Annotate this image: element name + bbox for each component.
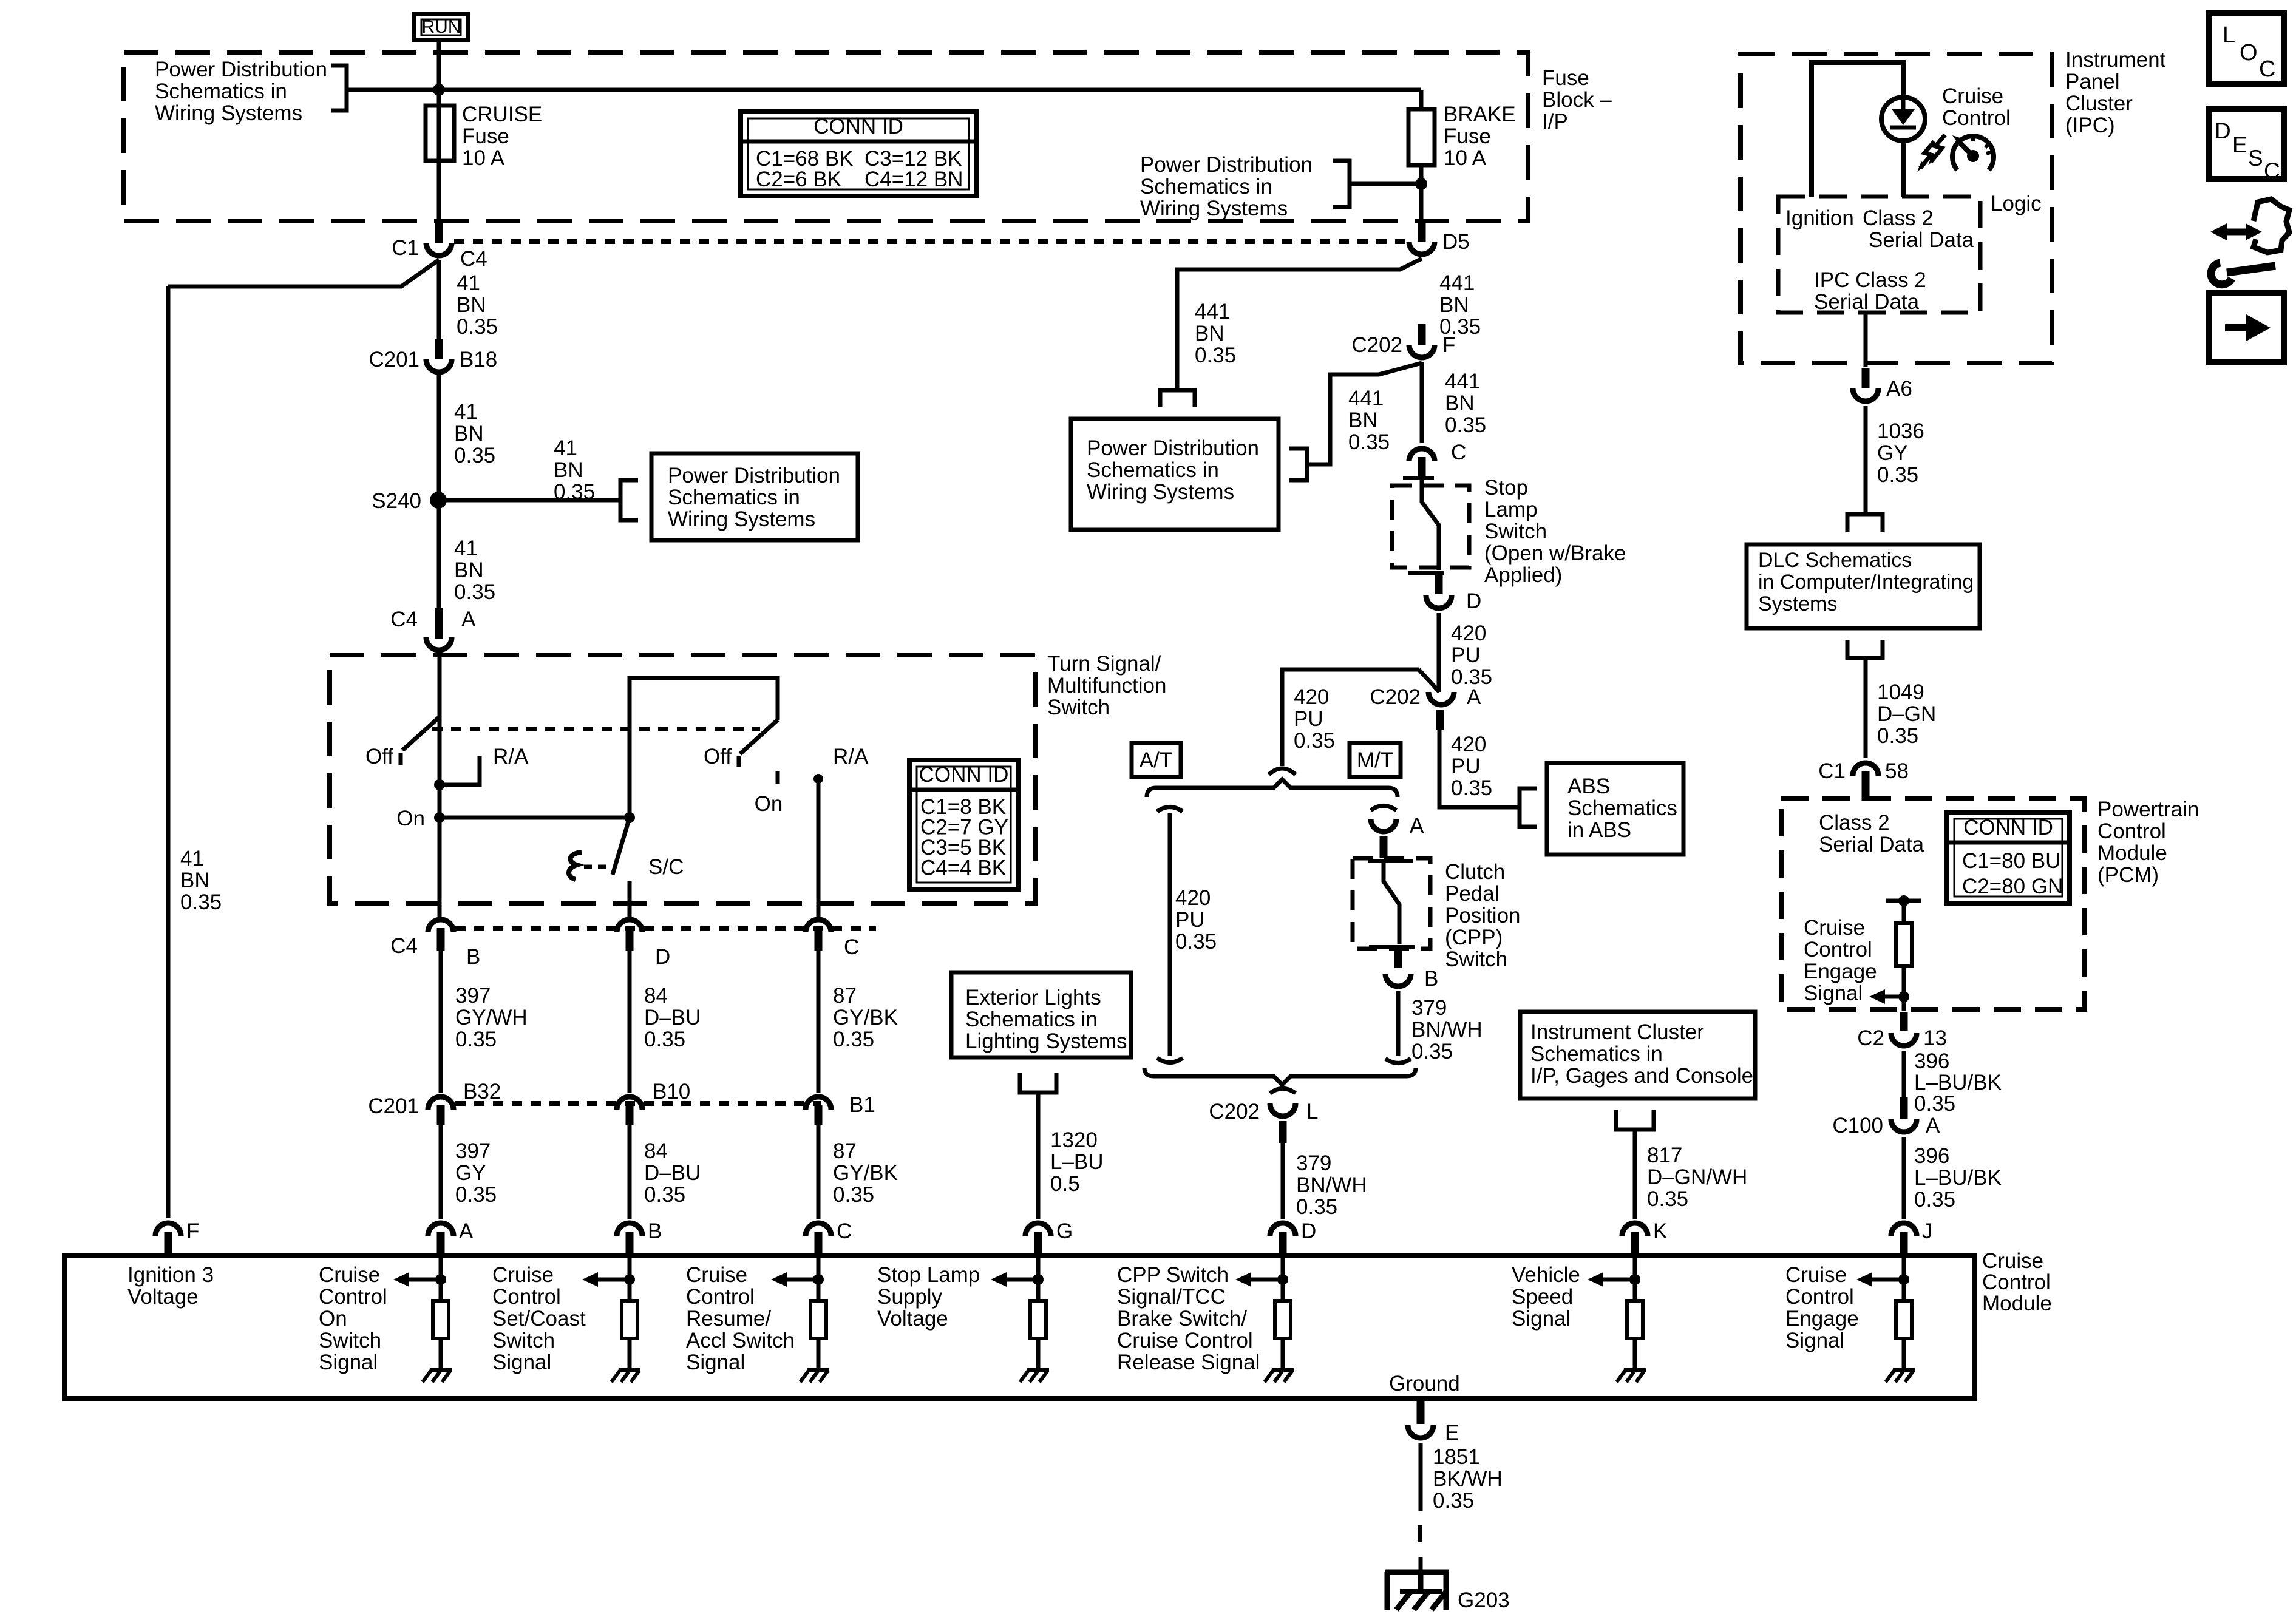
connector D (stop lamp switch output) [1426, 574, 1481, 613]
label: instrument panel cluster (IPC) [2065, 48, 2166, 137]
dashed box: powertrain control module (PCM) [1781, 799, 2085, 1009]
label: 41 BN 0.35 (below C1) [457, 271, 498, 339]
label: 1851 BK/WH 0.35 [1433, 1445, 1503, 1513]
svg-text:87: 87 [833, 984, 857, 1008]
svg-text:Schematics in: Schematics in [1087, 458, 1219, 482]
label: 420 PU 0.35 (to ABS) [1451, 733, 1492, 800]
svg-text:Systems: Systems [1758, 592, 1837, 615]
svg-text:Off: Off [704, 745, 732, 768]
break mark above options brace [1269, 768, 1296, 775]
svg-text:L–BU: L–BU [1050, 1150, 1104, 1174]
module input circuit D: pull-up resistor and ground [1235, 1258, 1294, 1382]
svg-text:Schematics in: Schematics in [965, 1008, 1098, 1031]
svg-text:Schematics in: Schematics in [1140, 175, 1272, 198]
svg-text:Control: Control [1982, 1270, 2051, 1294]
svg-text:397: 397 [455, 1139, 491, 1163]
svg-text:13: 13 [1923, 1026, 1947, 1050]
label: 87 GY/BK 0.35 (lower) [833, 1139, 898, 1207]
label: 84 D-BU 0.35 [644, 984, 701, 1051]
label: stop lamp switch [1484, 476, 1626, 587]
svg-text:BN: BN [1445, 392, 1475, 415]
svg-text:C2=80 GN: C2=80 GN [1962, 875, 2063, 898]
svg-text:CRUISE: CRUISE [462, 103, 542, 126]
svg-text:Power Distribution: Power Distribution [155, 58, 327, 81]
label: cruise control engage signal (module) [1785, 1263, 1859, 1352]
svg-text:0.35: 0.35 [1914, 1092, 1955, 1116]
svg-text:0.35: 0.35 [833, 1028, 874, 1051]
svg-text:PU: PU [1294, 707, 1323, 731]
svg-text:0.35: 0.35 [1411, 1040, 1453, 1063]
svg-text:B: B [1424, 967, 1438, 991]
switch: stop lamp (open w/brake applied) [1403, 478, 1444, 573]
svg-text:D: D [1301, 1219, 1316, 1243]
fuse: CRUISE 10 A [426, 106, 454, 161]
svg-text:BN: BN [554, 458, 583, 482]
svg-text:Engage: Engage [1785, 1307, 1859, 1331]
label: ground [1389, 1372, 1460, 1395]
svg-text:Control: Control [2097, 819, 2166, 843]
svg-text:1049: 1049 [1877, 680, 1924, 704]
indicator LED: cruise control lamp [1881, 97, 1925, 141]
label: 87 GY/BK 0.35 [833, 984, 898, 1051]
label: 420 PU 0.35 (stop lamp out) [1451, 622, 1492, 689]
svg-text:Serial Data: Serial Data [1819, 833, 1924, 856]
svg-text:Engage: Engage [1804, 960, 1877, 983]
svg-text:IPC Class 2: IPC Class 2 [1814, 268, 1926, 292]
svg-text:0.35: 0.35 [554, 480, 595, 504]
wire: CPP B to lower brace [1385, 991, 1411, 1063]
box: power distribution schematics in wiring systems (S240) [651, 453, 858, 540]
svg-text:Release Signal: Release Signal [1117, 1351, 1260, 1374]
label: 441 BN 0.35 (to box) [1348, 387, 1390, 454]
svg-text:D–BU: D–BU [644, 1161, 701, 1185]
svg-text:GY: GY [455, 1161, 486, 1185]
connector C202 / A [1370, 685, 1481, 730]
wire: C202 A to ABS [1439, 730, 1537, 827]
wire: S240 branch to power distribution [438, 480, 638, 520]
wire: C1 to C201 [437, 260, 441, 340]
connector A (cruise control module) [428, 1219, 474, 1254]
svg-text:Switch: Switch [1445, 947, 1507, 971]
label: 41 BN 0.35 (S240 branch) [554, 436, 595, 504]
svg-text:A: A [1926, 1114, 1940, 1137]
bracket: from DLC box (bottom) [1847, 640, 1883, 758]
svg-text:S: S [2248, 146, 2263, 171]
svg-text:A: A [1410, 814, 1424, 838]
fuse: BRAKE 10 A [1408, 90, 1435, 222]
svg-text:GY/BK: GY/BK [833, 1006, 898, 1029]
connector A (CPP switch input, M/T leg) [1371, 806, 1424, 859]
svg-text:BN/WH: BN/WH [1296, 1173, 1367, 1197]
svg-text:PU: PU [1451, 643, 1481, 667]
svg-text:Ignition 3: Ignition 3 [127, 1263, 214, 1287]
svg-text:Wiring Systems: Wiring Systems [668, 507, 815, 531]
svg-text:Switch: Switch [492, 1329, 555, 1352]
wire: C2 13 to C100 [1902, 1051, 1906, 1097]
label: 441 BN 0.35 (to stop lamp) [1445, 370, 1486, 437]
svg-text:1320: 1320 [1050, 1128, 1098, 1152]
svg-text:Lighting Systems: Lighting Systems [965, 1029, 1127, 1053]
label: stop lamp supply voltage [877, 1263, 980, 1331]
dotted connector row (C4 top) [454, 239, 1407, 244]
label: class 2 serial data (PCM) [1819, 811, 1924, 856]
svg-text:A6: A6 [1886, 377, 1912, 401]
svg-text:C: C [844, 935, 859, 959]
wire and bracket: C202 F branch to power distribution box [1289, 363, 1422, 480]
svg-text:Set/Coast: Set/Coast [492, 1307, 586, 1331]
svg-text:0.35: 0.35 [644, 1183, 685, 1207]
wire: 41 BN drop to ignition-3 input (left run) [168, 260, 439, 1218]
svg-text:DLC Schematics: DLC Schematics [1758, 549, 1912, 572]
svg-text:S240: S240 [372, 489, 421, 513]
wire: A/T leg [1157, 807, 1183, 1063]
icon: LOC box [2209, 13, 2284, 84]
CONN ID table: turn signal switch [909, 760, 1018, 889]
svg-text:0.35: 0.35 [180, 890, 222, 914]
svg-text:Voltage: Voltage [127, 1285, 199, 1309]
svg-text:0.35: 0.35 [1195, 344, 1236, 367]
dashed box: turn signal / multifunction switch [330, 655, 1035, 903]
svg-text:GY: GY [1877, 441, 1908, 465]
svg-text:0.35: 0.35 [1877, 463, 1918, 487]
connector C202 / F [1351, 324, 1455, 358]
svg-text:84: 84 [644, 1139, 668, 1163]
svg-text:Switch: Switch [319, 1329, 381, 1352]
svg-text:10 A: 10 A [1444, 146, 1487, 170]
svg-text:C: C [2264, 158, 2280, 183]
svg-text:0.35: 0.35 [833, 1183, 874, 1207]
connector J (cruise control module) [1891, 1219, 1933, 1254]
wire: switch jumper to resume/accel pole [630, 678, 778, 818]
coupling dashed line between switch poles [432, 727, 760, 731]
svg-text:Signal: Signal [319, 1351, 378, 1374]
label: cruise control on switch signal [319, 1263, 387, 1374]
svg-text:ABS: ABS [1567, 775, 1610, 798]
wire: C201 to S240 [437, 375, 441, 608]
contact R/A (left) [434, 745, 529, 790]
svg-text:84: 84 [644, 984, 668, 1008]
svg-text:379: 379 [1411, 996, 1447, 1020]
connector C202 / L [1209, 1089, 1318, 1144]
switch: resume/accel (right pole) [704, 720, 783, 816]
svg-text:Schematics in: Schematics in [155, 80, 287, 103]
svg-text:Cruise Control: Cruise Control [1117, 1329, 1253, 1352]
connector B (cruise control module) [617, 1219, 662, 1254]
svg-text:CPP Switch: CPP Switch [1117, 1263, 1229, 1287]
svg-text:Switch: Switch [1484, 520, 1547, 543]
svg-text:420: 420 [1175, 886, 1211, 910]
svg-text:Cruise: Cruise [492, 1263, 554, 1287]
svg-text:O: O [2240, 40, 2258, 66]
svg-text:I/P: I/P [1542, 110, 1568, 134]
svg-text:Class 2: Class 2 [1819, 811, 1890, 835]
svg-text:441: 441 [1445, 370, 1480, 393]
svg-text:Control: Control [319, 1285, 387, 1309]
svg-text:Control: Control [492, 1285, 561, 1309]
svg-text:C4=4 BK: C4=4 BK [920, 856, 1006, 880]
svg-text:C202: C202 [1351, 333, 1402, 357]
svg-text:C2: C2 [1857, 1026, 1884, 1050]
label: 396 L-BU/BK 0.35 (lower) [1914, 1144, 2002, 1212]
svg-text:Exterior Lights: Exterior Lights [965, 986, 1101, 1009]
label: 1320 L-BU 0.5 [1050, 1128, 1104, 1196]
label: cruise control module [1982, 1249, 2052, 1315]
dashed box: logic [1778, 197, 1980, 313]
svg-text:D–GN: D–GN [1877, 702, 1936, 726]
connector F (cruise control module) [155, 1219, 199, 1254]
wire: RUN feed bus [347, 40, 1421, 106]
icon: arrow box [2209, 293, 2284, 362]
connector row C201: terminals B32, B10, B1 [368, 1080, 875, 1125]
svg-text:G203: G203 [1458, 1588, 1510, 1612]
svg-text:Power Distribution: Power Distribution [1140, 153, 1313, 177]
svg-text:Cruise: Cruise [686, 1263, 747, 1287]
switch: set/coast S/C momentary [569, 818, 684, 920]
svg-text:BN: BN [454, 558, 484, 582]
svg-text:Module: Module [2097, 841, 2167, 865]
svg-text:CONN ID: CONN ID [919, 763, 1009, 787]
svg-text:Cruise: Cruise [1942, 84, 2003, 108]
label: IPC class 2 serial data [1814, 268, 1926, 314]
svg-text:Wiring Systems: Wiring Systems [1087, 480, 1234, 504]
svg-text:J: J [1922, 1219, 1933, 1243]
svg-text:A: A [1467, 685, 1481, 709]
svg-text:0.35: 0.35 [1175, 930, 1217, 954]
svg-text:Cruise: Cruise [1785, 1263, 1847, 1287]
svg-text:41: 41 [454, 537, 478, 560]
label: 379 BN/WH 0.35 (to module) [1296, 1151, 1367, 1219]
svg-text:0.35: 0.35 [455, 1028, 497, 1051]
svg-text:Cruise: Cruise [1804, 916, 1865, 940]
svg-text:F: F [186, 1219, 199, 1243]
svg-text:in Computer/Integrating: in Computer/Integrating [1758, 571, 1974, 594]
svg-text:B10: B10 [653, 1080, 690, 1103]
label: ignition 3 voltage [127, 1263, 214, 1309]
svg-text:BN: BN [180, 869, 210, 892]
svg-text:10 A: 10 A [462, 146, 505, 170]
svg-text:Voltage: Voltage [877, 1307, 948, 1331]
box: power distribution schematics in wiring systems (441) [1071, 419, 1279, 530]
svg-text:Power Distribution: Power Distribution [1087, 436, 1259, 460]
svg-text:Panel: Panel [2065, 70, 2120, 93]
svg-text:R/A: R/A [493, 745, 529, 768]
svg-text:(Open w/Brake: (Open w/Brake [1484, 541, 1626, 565]
svg-text:420: 420 [1294, 685, 1329, 709]
svg-text:A: A [459, 1219, 474, 1243]
svg-text:BN: BN [457, 293, 486, 317]
svg-text:Schematics: Schematics [1567, 796, 1677, 820]
svg-text:B1: B1 [849, 1093, 875, 1117]
svg-text:Clutch: Clutch [1445, 860, 1505, 884]
svg-text:0.35: 0.35 [1348, 430, 1390, 454]
wire: C202 L to module [1281, 1143, 1285, 1219]
connector C2 / 13 [1857, 1012, 1947, 1050]
module input circuit A: pull-up resistor and ground [393, 1258, 452, 1382]
svg-text:Supply: Supply [877, 1285, 943, 1309]
switch: cruise on/off (left pole) [365, 652, 440, 920]
svg-text:0.35: 0.35 [644, 1028, 685, 1051]
label: Cruise Control (indicator) [1942, 84, 2011, 130]
label: ignition / class 2 serial data [1785, 206, 1974, 252]
svg-text:BN: BN [1439, 293, 1469, 317]
label: 41 BN 0.35 (below S240) [454, 537, 495, 604]
label: 379 BN/WH 0.35 (CPP) [1411, 996, 1483, 1063]
svg-text:CONN ID: CONN ID [813, 115, 903, 138]
label: cruise control set/coast switch signal [492, 1263, 586, 1374]
svg-text:B: B [466, 945, 480, 969]
label: 396 L-BU/BK 0.35 (upper) [1914, 1049, 2002, 1116]
connector C1 / 58 (PCM) [1818, 759, 1909, 801]
label: cruise control resume/accl switch signal [686, 1263, 795, 1374]
svg-text:Signal: Signal [686, 1351, 745, 1374]
module input circuit K: pull-up resistor and ground [1588, 1258, 1646, 1382]
label: 441 BN 0.35 (D5) [1439, 271, 1481, 339]
connector C (stop lamp switch input) [1409, 441, 1466, 478]
svg-text:41: 41 [454, 400, 478, 424]
svg-text:Vehicle: Vehicle [1512, 1263, 1580, 1287]
svg-text:BN: BN [454, 422, 484, 446]
label: 420 PU 0.35 (A/T leg) [1175, 886, 1217, 954]
svg-text:C201: C201 [369, 348, 419, 371]
svg-text:Signal: Signal [1785, 1329, 1844, 1352]
svg-text:Applied): Applied) [1484, 563, 1562, 587]
svg-text:Control: Control [1804, 938, 1872, 961]
svg-text:Control: Control [1942, 106, 2011, 130]
svg-text:D: D [2215, 118, 2231, 143]
connector K (cruise control module) [1622, 1219, 1667, 1254]
svg-text:B: B [648, 1219, 662, 1243]
connector D5 (brake feed into harness) [1409, 221, 1470, 254]
svg-text:0.35: 0.35 [1445, 413, 1486, 437]
dashed box: clutch pedal position switch [1353, 858, 1430, 949]
svg-text:PU: PU [1175, 908, 1205, 932]
icon: service hand with wrench [2210, 199, 2289, 285]
svg-text:396: 396 [1914, 1049, 1949, 1073]
ground G203 [1385, 1572, 1510, 1612]
svg-text:Fuse: Fuse [462, 124, 509, 148]
svg-text:Block –: Block – [1542, 88, 1612, 112]
RUN ignition position box [414, 14, 468, 40]
svg-text:L: L [1306, 1100, 1318, 1124]
svg-text:GY/BK: GY/BK [833, 1161, 898, 1185]
svg-text:Control: Control [1785, 1285, 1854, 1309]
svg-text:Wiring Systems: Wiring Systems [155, 101, 302, 125]
wire: C100 to module J [1902, 1137, 1906, 1219]
svg-text:396: 396 [1914, 1144, 1949, 1168]
label: 397 GY 0.35 [455, 1139, 497, 1207]
dashed box: instrument panel cluster (IPC) [1741, 54, 2052, 363]
svg-text:Lamp: Lamp [1484, 498, 1538, 521]
svg-text:58: 58 [1885, 759, 1909, 783]
svg-text:0.35: 0.35 [1877, 724, 1918, 748]
svg-text:D5: D5 [1442, 230, 1470, 254]
bracket: power distribution note (top left) [331, 66, 347, 110]
CONN ID table: PCM [1947, 812, 2070, 903]
label: 817 D-GN/WH 0.35 [1647, 1144, 1747, 1211]
svg-text:Power Distribution: Power Distribution [668, 464, 840, 487]
wire: cruise indicator driver loop [1812, 63, 1903, 197]
svg-text:Serial Data: Serial Data [1814, 290, 1920, 314]
brace: option split (top) [1147, 779, 1398, 797]
connector G (cruise control module) [1025, 1219, 1073, 1254]
wire: cruise fuse to C1 [437, 161, 441, 222]
svg-text:C: C [837, 1219, 852, 1243]
contact R/A (right) and wire to C [813, 745, 869, 920]
svg-text:C100: C100 [1832, 1114, 1883, 1137]
connector B (CPP switch output) [1385, 947, 1438, 991]
svg-text:Wiring Systems: Wiring Systems [1140, 197, 1288, 220]
svg-text:C202: C202 [1209, 1100, 1260, 1124]
wire: 1851 BK/WH ground lead [1420, 1443, 1421, 1572]
label: 441 BN 0.35 (branch) [1195, 300, 1236, 367]
svg-text:Signal: Signal [492, 1351, 551, 1374]
connector C (cruise control module) [806, 1219, 852, 1254]
label: CRUISE Fuse 10 A [462, 103, 542, 170]
resistor: cruise control engage signal (PCM internal) [1869, 895, 1921, 1011]
svg-text:BN: BN [1348, 408, 1378, 432]
icon: DESC box [2209, 109, 2284, 183]
svg-text:Position: Position [1445, 904, 1521, 927]
switch: clutch pedal position [1368, 861, 1415, 947]
svg-text:B18: B18 [460, 348, 497, 371]
svg-text:0.35: 0.35 [1294, 729, 1335, 753]
svg-text:0.35: 0.35 [457, 315, 498, 339]
label: 1049 D-GN 0.35 [1877, 680, 1936, 748]
svg-text:Control: Control [686, 1285, 755, 1309]
svg-text:C: C [1451, 441, 1466, 464]
svg-text:Module: Module [1982, 1292, 2052, 1315]
svg-text:I/P, Gages and Console: I/P, Gages and Console [1530, 1064, 1753, 1088]
svg-text:D: D [1466, 589, 1481, 613]
box: DLC schematics [1747, 544, 1980, 628]
svg-text:Logic: Logic [1991, 192, 2042, 215]
label: 1036 GY 0.35 [1877, 419, 1924, 487]
svg-text:Stop: Stop [1484, 476, 1528, 500]
svg-text:Powertrain: Powertrain [2097, 798, 2199, 821]
splice S240 [372, 489, 447, 513]
svg-text:On: On [396, 807, 425, 830]
wire: C202 F to stop lamp switch [1420, 362, 1424, 443]
svg-text:F: F [1442, 333, 1455, 357]
dashed box: stop lamp switch [1392, 486, 1469, 568]
svg-text:Schematics in: Schematics in [668, 486, 800, 509]
svg-text:41: 41 [180, 847, 204, 870]
svg-text:1036: 1036 [1877, 419, 1924, 443]
box: exterior lights schematics [951, 972, 1131, 1057]
bracket: to DLC box (top) [1847, 514, 1883, 532]
svg-text:A: A [461, 608, 476, 631]
fuse block I/P dashed box [124, 53, 1528, 221]
svg-text:Cluster: Cluster [2065, 92, 2133, 115]
label: 420 PU 0.35 (branch) [1294, 685, 1335, 753]
svg-text:S/C: S/C [648, 855, 684, 879]
svg-text:L–BU/BK: L–BU/BK [1914, 1071, 2002, 1094]
svg-text:in ABS: in ABS [1567, 818, 1631, 842]
svg-text:C: C [2259, 56, 2275, 82]
svg-text:Signal: Signal [1804, 981, 1863, 1005]
module input circuit B: pull-up resistor and ground [582, 1258, 640, 1382]
svg-text:R/A: R/A [833, 745, 869, 768]
label: 397 GY/WH 0.35 [455, 984, 528, 1051]
svg-text:Fuse: Fuse [1542, 66, 1589, 90]
svg-text:Ground: Ground [1389, 1372, 1460, 1395]
svg-text:BRAKE: BRAKE [1444, 103, 1516, 126]
svg-text:420: 420 [1451, 622, 1486, 645]
svg-text:K: K [1653, 1219, 1667, 1243]
label: vehicle speed signal [1512, 1263, 1580, 1331]
svg-text:817: 817 [1647, 1144, 1682, 1167]
label: 84 D-BU 0.35 (lower) [644, 1139, 701, 1207]
